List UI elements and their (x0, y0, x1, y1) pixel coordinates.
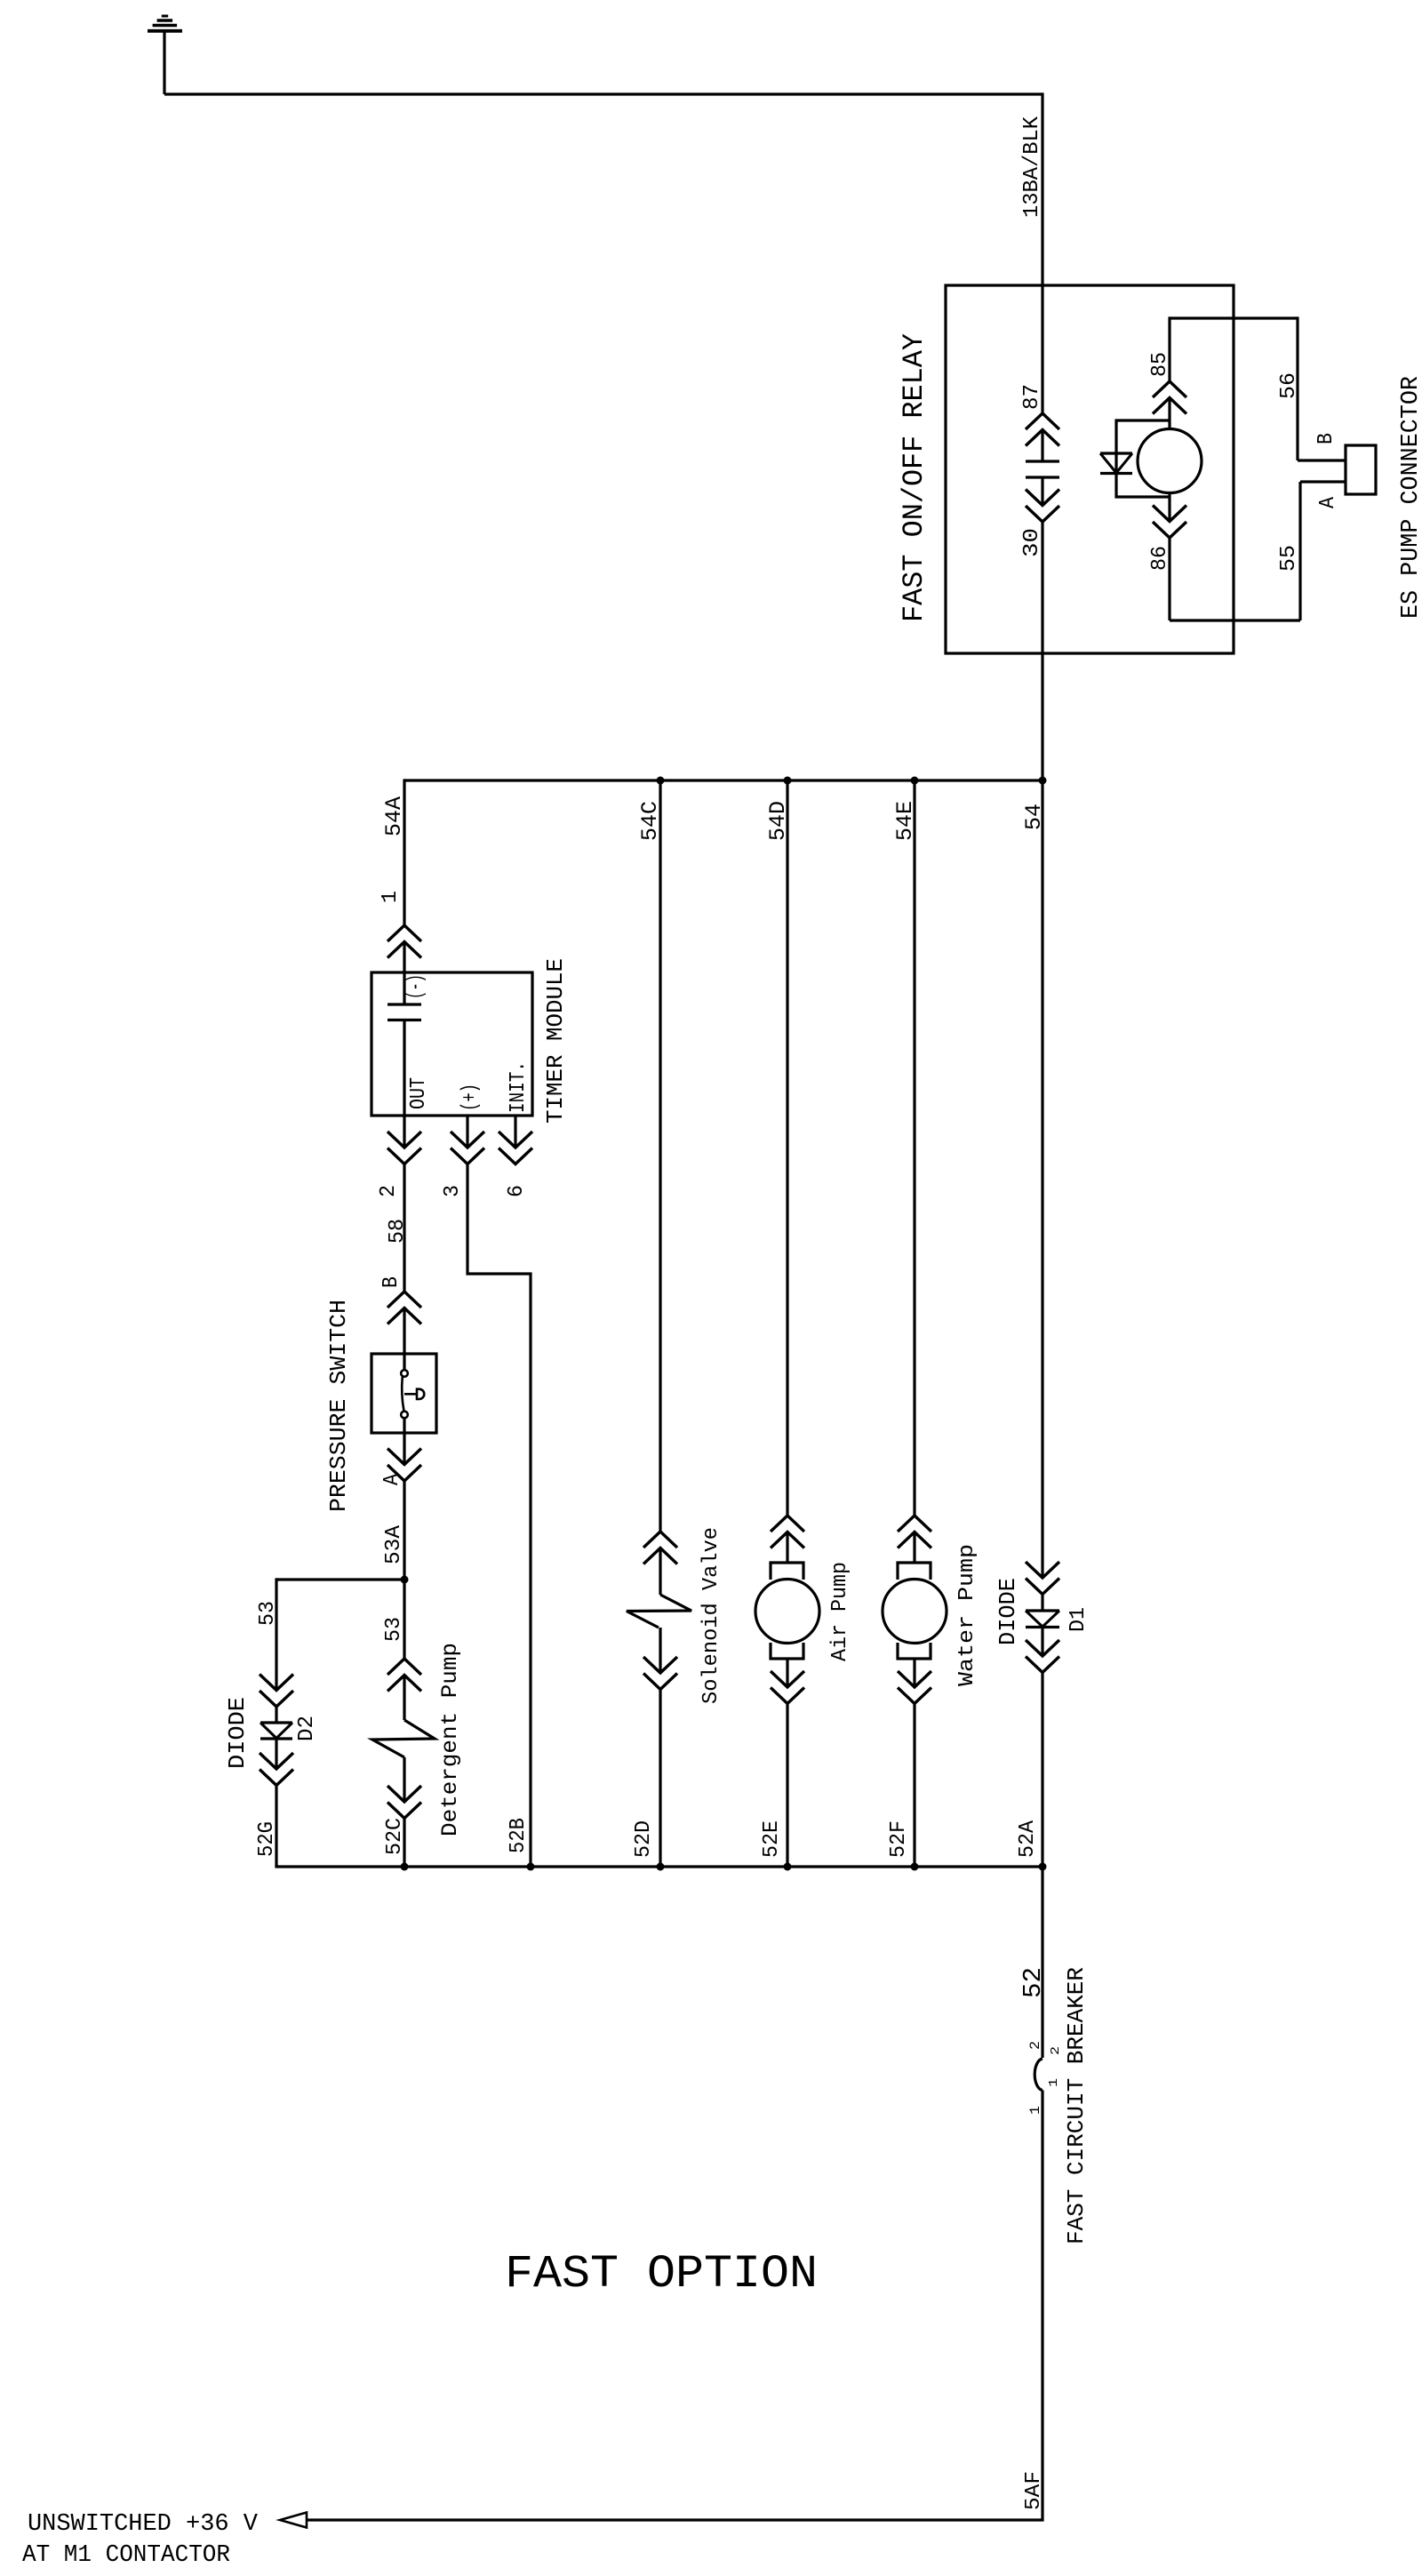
label FAST ON/OFF RELAY (898, 333, 931, 622)
wire pin B stub (1298, 459, 1346, 461)
svg-text:6: 6 (505, 1185, 529, 1197)
relay U1 FAST ON/OFF RELAY box (946, 285, 1234, 653)
svg-text:54: 54 (1021, 804, 1047, 830)
wire coil bottom (1168, 492, 1170, 522)
svg-text:DIODE: DIODE (995, 1578, 1021, 1645)
label ES PUMP CONNECTOR (1398, 376, 1422, 619)
timer capacitor plates (387, 1004, 421, 1020)
svg-text:3: 3 (441, 1185, 465, 1197)
label Air Pump (828, 1562, 852, 1661)
svg-text:13BA/BLK: 13BA/BLK (1020, 116, 1044, 218)
svg-text:B: B (379, 1276, 403, 1288)
pin A connector arrows (387, 1449, 421, 1482)
wire cap to OUT (403, 1020, 405, 1148)
wire 52 bus (276, 1865, 1043, 1867)
label Detergent Pump (437, 1643, 463, 1836)
label D2 (295, 1716, 319, 1741)
svg-text:52E: 52E (760, 1820, 784, 1858)
label 55 (1277, 545, 1301, 572)
svg-text:52A: 52A (1016, 1820, 1040, 1858)
label 52A (1016, 1820, 1040, 1858)
wire 52C (403, 1819, 405, 1868)
svg-text:A: A (1316, 496, 1340, 508)
label Water Pump (955, 1544, 979, 1686)
node 54E junction (911, 777, 919, 785)
breaker CB1 pin 1 label (1027, 2106, 1043, 2115)
label UNSWITCHED +36 V (28, 2511, 259, 2538)
label 52B (507, 1818, 531, 1853)
53 connector arrows (387, 1659, 421, 1692)
pressure switch S1 box (371, 1354, 436, 1433)
relay contact plates (1026, 461, 1059, 477)
label A (1316, 496, 1340, 508)
svg-text:2: 2 (1027, 2041, 1043, 2050)
D2 connector arrows bottom (260, 1753, 293, 1786)
wire 54E branch (913, 779, 915, 1516)
wire into pressure switch (403, 1308, 405, 1371)
wire pin87 to contact (1041, 430, 1043, 462)
wire top horizontal 13BA/BLK (164, 92, 1043, 95)
D1 connector arrows bottom (1026, 1640, 1059, 1673)
wire 54D branch (786, 779, 788, 1516)
timer module U2 box (371, 972, 532, 1116)
pin 6 label (505, 1185, 529, 1197)
wire into air pump (786, 1532, 788, 1564)
pin 87 connector arrows (1026, 413, 1059, 446)
wire 56 vertical (1296, 316, 1298, 460)
wire 53 branch horizontal (276, 1578, 404, 1580)
ES pump connector (1346, 445, 1376, 494)
label TIMER MODULE (542, 958, 569, 1124)
svg-text:53: 53 (382, 1617, 406, 1642)
svg-text:52B: 52B (507, 1818, 531, 1853)
wire pin3 down (467, 1164, 531, 1868)
svg-text:52C: 52C (383, 1818, 407, 1855)
pin 1 label (379, 891, 403, 903)
pin 85 connector arrows (1153, 381, 1186, 414)
52F connector arrows (898, 1671, 931, 1704)
wire 5AF (307, 2091, 1043, 2521)
wire trunk mid (1041, 522, 1043, 1578)
wire pin3 stub (466, 1116, 468, 1148)
52D connector arrows (643, 1657, 677, 1690)
wire into D2 (275, 1707, 277, 1723)
52C connector arrows (387, 1786, 421, 1819)
flyback diode (1100, 453, 1132, 474)
switch blade (402, 1377, 403, 1412)
breaker pin2 small (1049, 2046, 1063, 2055)
label 58 (386, 1219, 410, 1244)
pin 85 label (1148, 352, 1172, 377)
52E connector arrows (771, 1671, 804, 1704)
ground (148, 16, 182, 31)
svg-text:52G: 52G (255, 1821, 279, 1857)
wire 52D (659, 1690, 661, 1868)
wire out of pressure switch (403, 1418, 405, 1464)
switch contact top (401, 1370, 408, 1377)
svg-text:DIODE: DIODE (224, 1697, 251, 1769)
svg-text:(-): (-) (404, 974, 428, 999)
label 54C (637, 801, 663, 841)
svg-text:Detergent Pump: Detergent Pump (437, 1643, 463, 1836)
svg-text:52D: 52D (632, 1820, 656, 1858)
label (+) (459, 1084, 483, 1111)
node 52F junction (911, 1863, 919, 1871)
wire 53 main (403, 1580, 405, 1659)
wire 52 (1041, 1867, 1043, 2058)
label 52 (1019, 1967, 1048, 1998)
label 53 right (382, 1617, 406, 1642)
svg-text:OUT: OUT (407, 1077, 431, 1109)
wire trunk upper (1041, 92, 1043, 413)
water pump M3 (883, 1563, 947, 1659)
switch actuator (404, 1389, 424, 1399)
node 54D junction (784, 777, 792, 785)
label INIT. (507, 1061, 531, 1113)
wire 54 bus (404, 779, 1043, 781)
wire into D1 (1041, 1595, 1043, 1612)
pin 2 connector arrows (387, 1132, 421, 1164)
wire 56 horizontal (1170, 316, 1298, 319)
svg-text:87: 87 (1020, 384, 1044, 410)
svg-text:1: 1 (1047, 2078, 1061, 2087)
wire contact to pin30 (1041, 477, 1043, 506)
svg-text:FAST ON/OFF RELAY: FAST ON/OFF RELAY (898, 333, 931, 622)
label 52F (887, 1820, 911, 1858)
wire pin A stub (1300, 480, 1346, 483)
label 54D (765, 801, 791, 841)
node 54C junction (657, 777, 665, 785)
pin 87 label (1020, 384, 1044, 410)
svg-text:Water Pump: Water Pump (955, 1544, 979, 1686)
label 52D (632, 1820, 656, 1858)
label 52E (760, 1820, 784, 1858)
label AT M1 CONTACTOR (22, 2542, 230, 2569)
svg-text:D1: D1 (1066, 1607, 1090, 1632)
wire to D2 (275, 1578, 277, 1690)
label (-) (404, 974, 428, 999)
node 54 junction (1039, 777, 1047, 785)
label 56 (1277, 372, 1301, 399)
svg-text:30: 30 (1020, 528, 1044, 557)
relay coil (1138, 429, 1202, 493)
wire 53A (403, 1481, 405, 1580)
svg-text:FAST CIRCUIT BREAKER: FAST CIRCUIT BREAKER (1063, 1967, 1090, 2244)
solenoid valve L1 (627, 1595, 691, 1628)
title FAST OPTION (505, 2248, 818, 2300)
pin 2 label (377, 1185, 401, 1197)
wire pin1 into timer (403, 942, 405, 1005)
wire 52E (786, 1704, 788, 1868)
54E connector arrows (898, 1516, 931, 1548)
pin 86 connector arrows (1153, 506, 1186, 539)
detergent pump M1 (372, 1720, 435, 1757)
pin 1 connector arrows (387, 925, 421, 958)
svg-text:TIMER MODULE: TIMER MODULE (542, 958, 569, 1124)
label 54A (381, 796, 407, 836)
wire coil to bottom rail (1168, 538, 1170, 620)
wire 54A branch (403, 779, 405, 925)
label Solenoid Valve (699, 1527, 723, 1704)
wire into solenoid valve (659, 1548, 661, 1596)
air pump M2 (755, 1563, 819, 1659)
node 52B junction (527, 1863, 535, 1871)
wire into detergent pump (403, 1676, 405, 1721)
wire 54C branch (659, 779, 661, 1532)
svg-text:52: 52 (1019, 1967, 1048, 1998)
label 13BA/BLK (1020, 116, 1044, 218)
svg-text:FAST OPTION: FAST OPTION (505, 2248, 818, 2300)
54D connector arrows (771, 1516, 804, 1548)
pin 3 connector arrows (451, 1132, 484, 1164)
wire into water pump (913, 1532, 915, 1564)
label 54 (1021, 804, 1047, 830)
svg-text:D2: D2 (295, 1716, 319, 1741)
D2 connector arrows top (260, 1675, 293, 1708)
svg-text:B: B (1314, 433, 1338, 444)
wire into coil (1168, 398, 1170, 431)
svg-text:ES PUMP CONNECTOR: ES PUMP CONNECTOR (1398, 376, 1422, 619)
svg-text:55: 55 (1277, 545, 1301, 572)
arrow to M1 contactor (280, 2513, 307, 2528)
pin 86 label (1148, 546, 1172, 571)
54C connector arrows (643, 1532, 677, 1564)
label B pressure switch (379, 1276, 403, 1288)
label DIODE D1 (995, 1578, 1021, 1645)
node 52A junction (1039, 1863, 1047, 1871)
label D1 (1066, 1607, 1090, 1632)
D1 connector arrows top (1026, 1562, 1059, 1595)
wire below water pump (913, 1659, 915, 1687)
svg-text:UNSWITCHED +36 V: UNSWITCHED +36 V (28, 2511, 259, 2538)
flyback diode loop (1116, 420, 1170, 497)
breaker CB1 pin 2 label (1027, 2041, 1043, 2050)
wire below air pump (786, 1659, 788, 1687)
node 52E junction (784, 1863, 792, 1871)
wire below D1 (1041, 1628, 1043, 1657)
wire 52F (913, 1704, 915, 1868)
label DIODE D2 (224, 1697, 251, 1769)
wire 58 (403, 1164, 405, 1292)
label 53A (382, 1524, 406, 1564)
label FAST CIRCUIT BREAKER (1063, 1967, 1090, 2244)
wire below detergent pump (403, 1757, 405, 1802)
svg-text:58: 58 (386, 1219, 410, 1244)
svg-text:52F: 52F (887, 1820, 911, 1858)
node 53A junction (401, 1576, 409, 1584)
label 52G (255, 1821, 279, 1857)
wire 55 horizontal (1170, 619, 1300, 621)
wire below D2 (275, 1739, 277, 1769)
svg-text:INIT.: INIT. (507, 1061, 531, 1113)
svg-text:(+): (+) (459, 1084, 483, 1111)
svg-text:Air Pump: Air Pump (828, 1562, 852, 1661)
breaker pin1 small (1047, 2078, 1061, 2087)
svg-text:53A: 53A (382, 1524, 406, 1564)
label 54E (892, 801, 918, 841)
wire pin6 stub (514, 1116, 516, 1148)
wire 55 vertical (1298, 482, 1301, 620)
pin 3 label (441, 1185, 465, 1197)
svg-text:2: 2 (377, 1185, 401, 1197)
wire ground stem (163, 31, 165, 94)
label 53 left (256, 1601, 280, 1626)
node 52D junction (657, 1863, 665, 1871)
node 52C junction (401, 1863, 409, 1871)
label 5AF (1022, 2471, 1046, 2510)
svg-text:56: 56 (1277, 372, 1301, 399)
svg-text:1: 1 (379, 891, 403, 903)
circuit breaker CB1 arc (1035, 2059, 1043, 2091)
label OUT (407, 1077, 431, 1109)
svg-text:Solenoid Valve: Solenoid Valve (699, 1527, 723, 1704)
diode D2 (260, 1723, 292, 1739)
label A pressure switch (380, 1473, 404, 1485)
pin 30 connector arrows (1026, 490, 1059, 523)
svg-text:AT M1 CONTACTOR: AT M1 CONTACTOR (22, 2542, 230, 2569)
label PRESSURE SWITCH (325, 1300, 352, 1512)
label 52C (383, 1818, 407, 1855)
svg-text:1: 1 (1027, 2106, 1043, 2115)
wire 52G (275, 1786, 277, 1868)
wire coil top feed (1168, 316, 1170, 381)
pin B connector arrows (387, 1292, 421, 1324)
svg-text:2: 2 (1049, 2046, 1063, 2055)
switch contact bottom (401, 1412, 408, 1419)
svg-text:85: 85 (1148, 352, 1172, 377)
diode D1 (1026, 1611, 1059, 1628)
svg-text:PRESSURE SWITCH: PRESSURE SWITCH (325, 1300, 352, 1512)
svg-text:A: A (380, 1473, 404, 1485)
svg-text:5AF: 5AF (1022, 2471, 1046, 2510)
pin 30 label (1020, 528, 1044, 557)
pin 6 connector arrows (499, 1132, 532, 1164)
wire below solenoid valve (659, 1628, 661, 1673)
label B (1314, 433, 1338, 444)
wire 52A (1041, 1673, 1043, 1868)
